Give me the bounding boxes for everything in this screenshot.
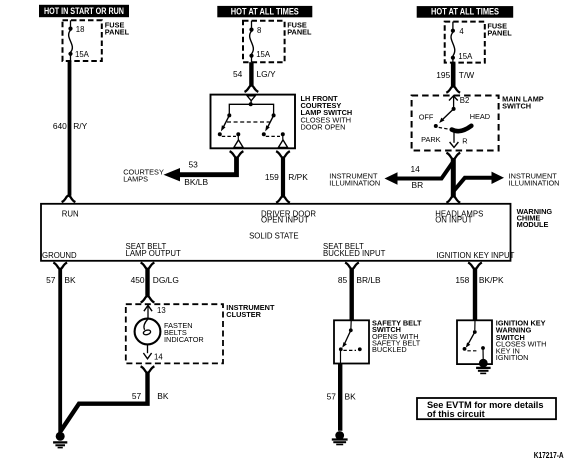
fuse F1 18 15A bbox=[68, 20, 89, 61]
courtesy switch left arm bbox=[221, 115, 229, 131]
svg-text:14: 14 bbox=[154, 352, 163, 361]
svg-text:R: R bbox=[462, 137, 467, 146]
svg-text:195: 195 bbox=[436, 70, 450, 80]
courtesy switch top pin triangle bbox=[247, 96, 255, 101]
svg-text:LAMP OUTPUT: LAMP OUTPUT bbox=[126, 249, 182, 258]
svg-text:HOT AT ALL TIMES: HOT AT ALL TIMES bbox=[231, 6, 299, 16]
fuse panel box F2 bbox=[243, 21, 285, 62]
safety belt switch box bbox=[334, 320, 369, 363]
svg-text:R/Y: R/Y bbox=[73, 121, 87, 131]
courtesy switch bottom pin triangles bbox=[234, 140, 243, 148]
svg-text:SOLID STATE: SOLID STATE bbox=[249, 231, 299, 240]
connector at module driver door pin bbox=[276, 196, 290, 202]
EVTM note box bbox=[417, 398, 556, 419]
courtesy switch gang dashed link bbox=[227, 121, 270, 123]
svg-text:HOT IN START OR RUN: HOT IN START OR RUN bbox=[44, 6, 124, 16]
fuse panel box F3 bbox=[445, 22, 485, 63]
svg-text:CLUSTER: CLUSTER bbox=[226, 310, 261, 319]
cluster pin 13 arrow bbox=[144, 305, 152, 311]
label IGNITION KEY WARNING SWITCH bbox=[496, 319, 547, 362]
instrument cluster dashed box bbox=[126, 304, 223, 363]
svg-text:MODULE: MODULE bbox=[517, 220, 549, 229]
svg-text:159: 159 bbox=[265, 172, 279, 182]
wire 54 LG/Y bbox=[249, 62, 253, 86]
connector below module ignition key pin bbox=[468, 263, 482, 269]
ground G1 bbox=[53, 432, 67, 448]
svg-text:15A: 15A bbox=[256, 50, 271, 59]
svg-text:PARK: PARK bbox=[421, 135, 441, 144]
svg-text:HOT AT ALL TIMES: HOT AT ALL TIMES bbox=[431, 7, 499, 17]
svg-text:57: 57 bbox=[327, 392, 337, 402]
wire 57 BK from safety belt switch bbox=[338, 364, 342, 431]
wire 159 R/PK bbox=[281, 157, 285, 197]
connector at module headlamps pin bbox=[446, 196, 460, 202]
wire 158 BK/PK bbox=[473, 269, 477, 321]
banner HOT AT ALL TIMES (center) bbox=[217, 6, 312, 17]
main lamp switch pin B2 arrow bbox=[449, 96, 458, 101]
svg-text:85: 85 bbox=[338, 275, 348, 285]
main lamp switch dashed box bbox=[412, 96, 499, 151]
ground G2 bbox=[332, 431, 348, 444]
svg-text:ILLUMINATION: ILLUMINATION bbox=[509, 178, 560, 187]
svg-text:LG/Y: LG/Y bbox=[257, 69, 276, 79]
svg-text:BK/PK: BK/PK bbox=[479, 275, 504, 285]
label LH FRONT COURTESY LAMP SWITCH bbox=[301, 94, 353, 131]
svg-text:B2: B2 bbox=[460, 96, 470, 105]
main lamp switch OFF contact bbox=[434, 124, 438, 128]
main lamp switch R output arrow bbox=[450, 132, 459, 147]
fasten belts indicator lamp bbox=[135, 306, 161, 344]
svg-text:450: 450 bbox=[131, 275, 145, 285]
svg-text:IGNITION: IGNITION bbox=[496, 353, 529, 362]
svg-text:DG/LG: DG/LG bbox=[153, 275, 179, 285]
courtesy switch right arm bbox=[265, 115, 273, 131]
fuse panel box F1 bbox=[63, 20, 102, 61]
cluster pin 14 arrow bbox=[143, 344, 151, 358]
svg-text:OFF: OFF bbox=[419, 113, 434, 122]
wire 57 BK ground bbox=[58, 269, 62, 433]
svg-text:of this circuit: of this circuit bbox=[427, 409, 485, 419]
svg-text:BK: BK bbox=[345, 392, 357, 402]
svg-text:PANEL: PANEL bbox=[487, 29, 512, 38]
connector below module ground pin bbox=[53, 263, 67, 269]
connector below main lamp switch bbox=[446, 153, 460, 159]
svg-text:RUN: RUN bbox=[62, 210, 79, 219]
connector at module RUN pin bbox=[62, 196, 76, 202]
svg-text:640: 640 bbox=[53, 121, 67, 131]
connector at main lamp switch bbox=[446, 86, 460, 92]
fuse F3 4 15A bbox=[451, 22, 473, 63]
svg-text:14: 14 bbox=[411, 164, 421, 174]
ground G3 bbox=[476, 359, 491, 374]
svg-text:BUCKLED INPUT: BUCKLED INPUT bbox=[323, 249, 386, 258]
connector below courtesy switch left bbox=[230, 151, 244, 157]
wire 53 BK/LB to courtesy lamps bbox=[164, 157, 237, 181]
svg-text:ON INPUT: ON INPUT bbox=[435, 216, 472, 225]
svg-text:R/PK: R/PK bbox=[288, 172, 308, 182]
fuse F2 8 15A bbox=[249, 21, 270, 62]
svg-text:BK: BK bbox=[64, 275, 76, 285]
connector below module seat belt buckled pin bbox=[345, 263, 359, 269]
wire headlamps vertical bbox=[451, 159, 456, 197]
connector below instrument cluster bbox=[141, 366, 155, 372]
svg-text:OPEN INPUT: OPEN INPUT bbox=[261, 216, 309, 225]
ignition key warning switch box bbox=[457, 320, 492, 364]
main lamp switch HEAD arc contact bbox=[452, 126, 472, 131]
svg-text:BK/LB: BK/LB bbox=[184, 177, 208, 187]
safety belt switch contacts bbox=[339, 320, 362, 363]
courtesy switch right contacts bbox=[262, 132, 285, 139]
warning chime module box bbox=[41, 204, 511, 261]
wire branch right to instrument illumination bbox=[453, 172, 504, 192]
main lamp switch dashed wiper path bbox=[439, 127, 450, 129]
connector below module seat belt lamp pin bbox=[141, 263, 155, 269]
wire 450 DG/LG bbox=[145, 269, 149, 297]
banner HOT AT ALL TIMES (right) bbox=[417, 6, 514, 18]
ignition key switch contacts bbox=[463, 320, 485, 359]
connector at instrument cluster bbox=[141, 296, 155, 302]
connector at courtesy switch bbox=[245, 86, 259, 92]
svg-text:158: 158 bbox=[455, 275, 469, 285]
LH front courtesy lamp switch box bbox=[211, 95, 296, 149]
svg-text:PANEL: PANEL bbox=[287, 28, 312, 37]
svg-text:18: 18 bbox=[76, 25, 85, 34]
svg-text:ILLUMINATION: ILLUMINATION bbox=[329, 178, 380, 187]
svg-text:IGNITION KEY INPUT: IGNITION KEY INPUT bbox=[437, 251, 515, 260]
svg-text:54: 54 bbox=[233, 69, 243, 79]
svg-text:BR/LB: BR/LB bbox=[356, 275, 381, 285]
courtesy switch internal wiring bbox=[227, 101, 275, 118]
svg-text:57: 57 bbox=[132, 391, 142, 401]
svg-text:57: 57 bbox=[46, 275, 56, 285]
svg-text:8: 8 bbox=[257, 26, 261, 35]
svg-text:BR: BR bbox=[412, 180, 424, 190]
svg-text:K17217-A: K17217-A bbox=[534, 451, 564, 460]
svg-text:DOOR OPEN: DOOR OPEN bbox=[301, 123, 346, 132]
svg-text:T/W: T/W bbox=[459, 70, 474, 80]
svg-text:BUCKLED: BUCKLED bbox=[372, 345, 407, 354]
svg-text:SWITCH: SWITCH bbox=[502, 102, 531, 111]
wire 640 R/Y bbox=[68, 61, 72, 196]
wire 195 T/W bbox=[451, 63, 456, 87]
banner HOT IN START OR RUN bbox=[39, 5, 129, 17]
main lamp switch wiper bbox=[439, 97, 455, 124]
courtesy switch left contacts bbox=[218, 132, 241, 139]
svg-text:15A: 15A bbox=[458, 52, 473, 61]
label SAFETY BELT SWITCH bbox=[372, 319, 422, 355]
svg-text:BK: BK bbox=[157, 391, 169, 401]
svg-text:53: 53 bbox=[189, 159, 199, 169]
svg-text:4: 4 bbox=[459, 27, 464, 36]
svg-text:HEAD: HEAD bbox=[470, 112, 490, 121]
svg-text:PANEL: PANEL bbox=[105, 28, 130, 37]
connector below courtesy switch right bbox=[276, 151, 290, 157]
wire 57 BK from cluster bbox=[61, 372, 148, 431]
svg-text:LAMPS: LAMPS bbox=[123, 175, 148, 184]
svg-text:GROUND: GROUND bbox=[42, 251, 77, 260]
svg-text:15A: 15A bbox=[75, 50, 90, 59]
wire 85 BR/LB bbox=[350, 269, 354, 321]
wire branch left to instrument illumination bbox=[385, 162, 454, 185]
svg-text:INDICATOR: INDICATOR bbox=[164, 335, 204, 344]
svg-text:13: 13 bbox=[157, 306, 166, 315]
